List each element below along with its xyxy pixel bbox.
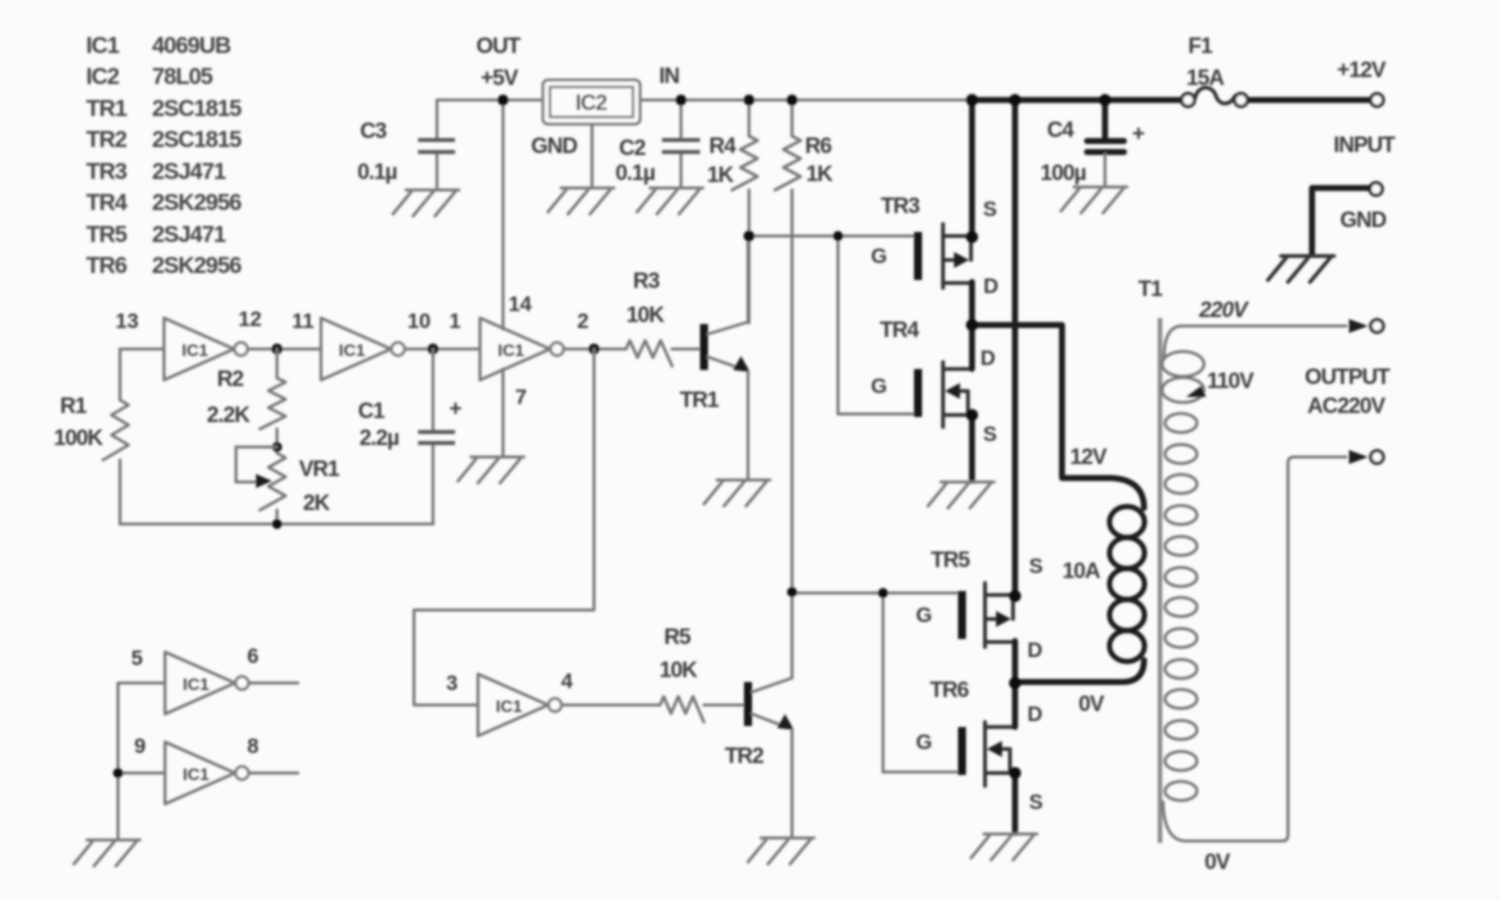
svg-text:D: D: [983, 275, 998, 298]
svg-text:T1: T1: [1138, 276, 1162, 301]
svg-text:TR4: TR4: [880, 317, 920, 342]
svg-text:IC1: IC1: [182, 341, 208, 360]
svg-text:R2: R2: [217, 366, 244, 391]
svg-text:C1: C1: [358, 398, 385, 423]
svg-text:VR1: VR1: [299, 456, 340, 481]
svg-text:R3: R3: [633, 268, 660, 293]
svg-text:2SC1815: 2SC1815: [152, 126, 242, 152]
svg-text:1K: 1K: [806, 161, 833, 186]
svg-text:78L05: 78L05: [152, 63, 213, 89]
svg-text:+: +: [1132, 121, 1144, 146]
svg-text:110V: 110V: [1207, 368, 1254, 393]
svg-text:TR2: TR2: [86, 126, 127, 152]
svg-text:R6: R6: [805, 133, 832, 158]
svg-text:13: 13: [115, 310, 138, 333]
svg-text:S: S: [983, 198, 997, 221]
svg-text:+: +: [449, 396, 461, 421]
svg-text:IC1: IC1: [496, 697, 522, 716]
svg-text:11: 11: [292, 310, 315, 333]
svg-text:5: 5: [131, 647, 143, 670]
svg-text:2.2K: 2.2K: [207, 402, 251, 427]
svg-text:100µ: 100µ: [1040, 160, 1086, 185]
svg-text:220V: 220V: [1198, 297, 1250, 322]
svg-text:TR6: TR6: [86, 252, 127, 278]
svg-text:TR1: TR1: [86, 95, 128, 121]
svg-text:S: S: [1029, 791, 1043, 814]
svg-text:R4: R4: [709, 133, 737, 158]
svg-text:IC1: IC1: [339, 341, 365, 360]
svg-text:2SK2956: 2SK2956: [152, 189, 241, 215]
svg-text:0V: 0V: [1079, 691, 1105, 716]
svg-text:0.1µ: 0.1µ: [615, 160, 655, 185]
svg-text:4069UB: 4069UB: [152, 32, 231, 58]
svg-text:C2: C2: [619, 135, 646, 160]
svg-text:F1: F1: [1188, 33, 1212, 58]
svg-text:TR6: TR6: [930, 677, 969, 702]
svg-text:1: 1: [449, 310, 461, 333]
svg-text:2K: 2K: [303, 490, 330, 515]
svg-text:12: 12: [238, 308, 261, 331]
svg-text:0V: 0V: [1205, 849, 1231, 874]
svg-text:INPUT: INPUT: [1334, 132, 1397, 157]
svg-text:D: D: [1027, 639, 1042, 662]
svg-text:IC1: IC1: [183, 675, 209, 694]
svg-text:GND: GND: [1340, 207, 1386, 232]
svg-text:AC220V: AC220V: [1307, 393, 1385, 418]
svg-text:0.1µ: 0.1µ: [357, 159, 397, 184]
svg-text:TR2: TR2: [725, 743, 764, 768]
svg-text:G: G: [916, 731, 932, 754]
svg-text:R5: R5: [664, 624, 691, 649]
svg-text:10: 10: [407, 310, 430, 333]
svg-text:2SJ471: 2SJ471: [152, 158, 227, 184]
svg-text:S: S: [1029, 555, 1043, 578]
svg-text:D: D: [1027, 703, 1042, 726]
svg-text:IC1: IC1: [86, 32, 120, 58]
svg-text:G: G: [871, 375, 887, 398]
svg-text:10A: 10A: [1062, 558, 1100, 583]
svg-text:TR5: TR5: [86, 221, 128, 247]
svg-text:15A: 15A: [1186, 65, 1224, 90]
svg-text:12V: 12V: [1070, 444, 1107, 469]
svg-text:S: S: [983, 423, 997, 446]
svg-text:14: 14: [508, 293, 532, 316]
svg-text:G: G: [871, 245, 887, 268]
svg-text:IC2: IC2: [575, 90, 607, 115]
svg-text:C4: C4: [1047, 117, 1075, 142]
svg-text:2.2µ: 2.2µ: [359, 425, 399, 450]
svg-text:OUT: OUT: [476, 33, 521, 58]
svg-text:C3: C3: [360, 118, 387, 143]
svg-text:TR5: TR5: [931, 547, 970, 572]
svg-text:IC2: IC2: [86, 63, 119, 89]
svg-text:6: 6: [247, 645, 259, 668]
svg-text:2SC1815: 2SC1815: [152, 95, 242, 121]
svg-text:3: 3: [446, 672, 458, 695]
svg-text:IC1: IC1: [183, 765, 209, 784]
svg-text:R1: R1: [60, 393, 87, 418]
svg-text:D: D: [980, 347, 995, 370]
svg-text:G: G: [916, 604, 932, 627]
svg-text:10K: 10K: [626, 302, 664, 327]
svg-text:1K: 1K: [707, 162, 734, 187]
svg-text:4: 4: [561, 670, 573, 693]
svg-text:IC1: IC1: [498, 341, 524, 360]
svg-text:OUTPUT: OUTPUT: [1305, 364, 1391, 389]
svg-text:IN: IN: [659, 63, 679, 88]
svg-text:TR4: TR4: [86, 189, 128, 215]
svg-text:2SJ471: 2SJ471: [152, 221, 227, 247]
svg-text:GND: GND: [531, 133, 577, 158]
svg-text:TR3: TR3: [881, 193, 920, 218]
svg-text:2: 2: [577, 310, 589, 333]
svg-text:TR1: TR1: [680, 387, 719, 412]
svg-text:+5V: +5V: [481, 65, 519, 90]
svg-text:+12V: +12V: [1337, 57, 1386, 82]
svg-text:10K: 10K: [659, 657, 697, 682]
svg-text:9: 9: [134, 735, 146, 758]
svg-text:100K: 100K: [54, 425, 104, 450]
svg-text:8: 8: [247, 735, 259, 758]
svg-text:2SK2956: 2SK2956: [152, 252, 241, 278]
svg-text:7: 7: [515, 386, 527, 409]
svg-text:TR3: TR3: [86, 158, 127, 184]
